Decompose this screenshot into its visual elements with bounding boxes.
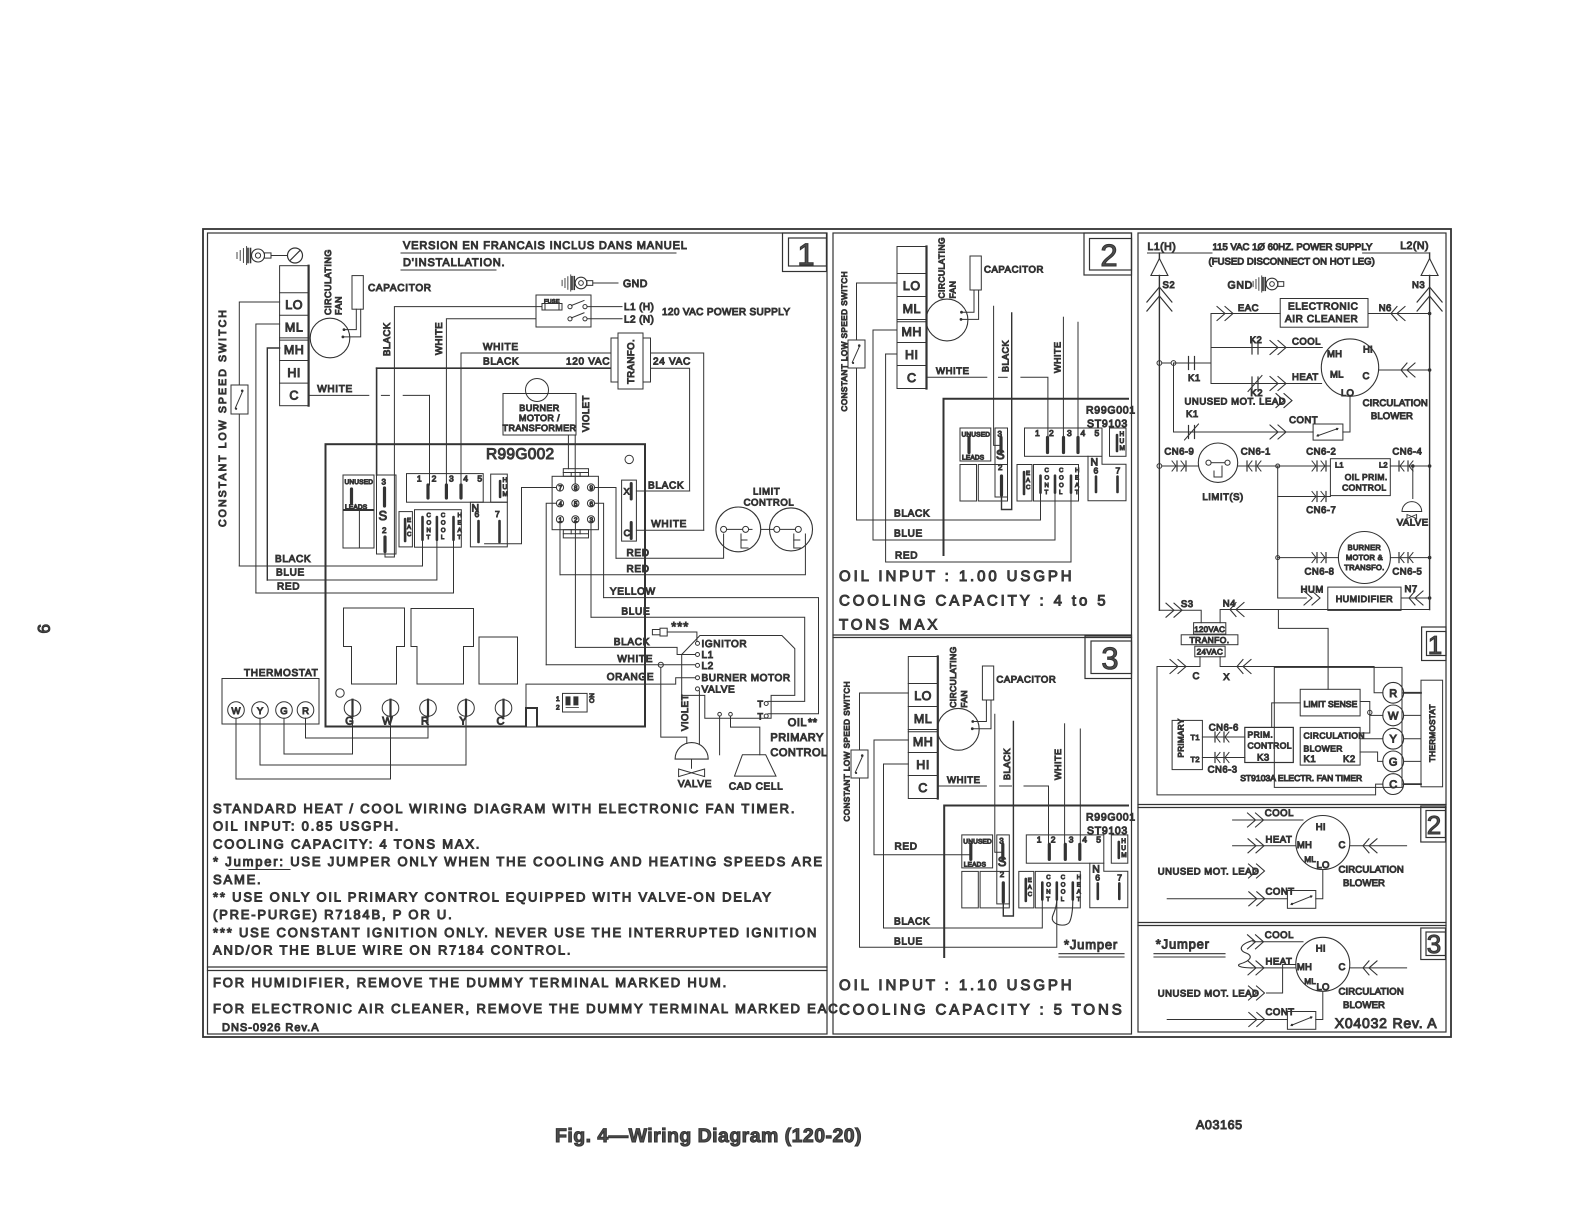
thermostat box (right) (1421, 680, 1443, 787)
svg-text:L: L (1061, 896, 1065, 903)
svg-text:VALVE: VALVE (1397, 518, 1429, 529)
primary box (1172, 720, 1202, 769)
svg-text:SAME.: SAME. (213, 872, 262, 887)
svg-text:L: L (441, 534, 445, 541)
svg-text:ST9103A ELECTR. FAN TIMER: ST9103A ELECTR. FAN TIMER (1240, 773, 1362, 783)
svg-text:S3: S3 (1181, 599, 1194, 610)
terminal column 3 S 2 (997, 835, 1010, 904)
svg-text:N6: N6 (1379, 303, 1392, 314)
svg-text:9: 9 (34, 624, 53, 633)
svg-text:MH: MH (1327, 349, 1342, 360)
svg-text:HI: HI (287, 366, 301, 380)
wire C row (right 3) (1350, 967, 1407, 969)
N 6 7 box (left) (470, 502, 507, 547)
wire pin7 (485, 488, 557, 544)
ST9103A fan timer box (1274, 667, 1402, 787)
svg-text:T: T (1045, 489, 1049, 496)
svg-text:4: 4 (1081, 428, 1086, 438)
svg-text:M: M (503, 491, 508, 498)
svg-text:H: H (1121, 838, 1126, 845)
unused leads box (left) (343, 475, 374, 510)
svg-text:O: O (1045, 474, 1050, 481)
svg-text:U: U (1121, 845, 1126, 852)
wire LO down to cont switch (1343, 396, 1350, 432)
svg-text:FAN: FAN (959, 690, 969, 708)
wire MH down (267, 348, 279, 580)
cad cell (735, 755, 777, 776)
svg-text:6: 6 (1094, 466, 1099, 476)
wire LO to switch (860, 693, 909, 750)
box below unused leads (343, 511, 374, 549)
svg-text:CONTROL: CONTROL (1248, 741, 1292, 751)
svg-text:W: W (232, 706, 241, 717)
mounting hole (625, 455, 633, 463)
svg-text:K3: K3 (1257, 753, 1270, 764)
wire white to pin4 (1079, 729, 1081, 844)
svg-text:2: 2 (382, 526, 387, 535)
svg-text:HUMIDIFIER: HUMIDIFIER (1336, 594, 1394, 604)
eac dummy terminal box (left) (399, 512, 412, 547)
svg-text:T: T (458, 534, 462, 541)
circulation blower motor (right 1) (1321, 339, 1378, 396)
X C terminal box (left) (622, 480, 637, 541)
svg-text:BLUE: BLUE (621, 607, 650, 618)
svg-text:1: 1 (1035, 428, 1040, 438)
svg-text:IGNITOR: IGNITOR (702, 639, 748, 650)
hum dummy terminal box (1110, 428, 1127, 456)
wire black from fan down to S2 bar (1002, 313, 1012, 510)
svg-text:CIRCULATING: CIRCULATING (937, 237, 947, 298)
svg-text:M: M (1120, 445, 1125, 452)
svg-text:VERSION EN FRANCAIS INCLUS DAN: VERSION EN FRANCAIS INCLUS DANS MANUEL (403, 240, 688, 252)
svg-text:3: 3 (1101, 641, 1118, 676)
wire CN6-9 (1157, 464, 1162, 469)
fan terminals and capacitor wires (971, 720, 974, 723)
wire pin6 to yellow (595, 503, 604, 597)
terminal screws G W R Y C (344, 700, 361, 717)
cont switch box (right 2) (1287, 891, 1315, 909)
svg-text:TRANFO.: TRANFO. (1189, 635, 1229, 645)
svg-text:CN6-5: CN6-5 (1392, 567, 1422, 578)
svg-text:M: M (1121, 852, 1126, 859)
svg-text:E: E (1077, 881, 1081, 888)
svg-text:MOTOR /: MOTOR / (519, 413, 560, 423)
svg-text:BLACK: BLACK (1001, 340, 1011, 372)
svg-text:RED: RED (627, 548, 650, 559)
boxes below unused leads (962, 871, 979, 908)
circulation blower K1 K2 box (1300, 727, 1360, 765)
svg-text:CONTROL: CONTROL (744, 498, 795, 509)
svg-text:COOLING CAPACITY : 4 to 5: COOLING CAPACITY : 4 to 5 (839, 593, 1109, 610)
svg-text:T: T (1046, 896, 1050, 903)
svg-text:C: C (441, 512, 446, 519)
svg-text:CIRCULATION: CIRCULATION (1339, 865, 1404, 876)
bottom notch (526, 708, 537, 727)
thermostat box (left) (222, 679, 319, 725)
svg-text:L1: L1 (1335, 461, 1344, 470)
transformer T1 (611, 338, 618, 382)
R99G002 bottom wires from screws (352, 716, 354, 754)
wire CN6-8 (1276, 556, 1280, 560)
svg-text:120 VAC POWER SUPPLY: 120 VAC POWER SUPPLY (662, 307, 790, 318)
svg-text:E: E (1026, 470, 1030, 477)
wire white from fuse L2 down to pin 3 (446, 319, 536, 484)
wire N4 (1220, 610, 1430, 623)
svg-text:*** USE CONSTANT IGNITION ONLY: *** USE CONSTANT IGNITION ONLY. NEVER US… (213, 925, 818, 940)
LIMIT(S) control (1198, 443, 1237, 482)
svg-text:C: C (1059, 467, 1064, 474)
wire pin2 to black (574, 523, 576, 648)
svg-text:CN6-4: CN6-4 (1392, 447, 1422, 458)
transformer (right panel) (1194, 623, 1226, 634)
unused leads box (960, 428, 991, 461)
terminal column 3 S 2 (995, 428, 1008, 497)
svg-text:CN6-8: CN6-8 (1305, 567, 1335, 578)
svg-text:BLOWER: BLOWER (1343, 878, 1385, 889)
svg-text:HEAT: HEAT (1292, 372, 1319, 383)
svg-text:MH: MH (1297, 840, 1312, 851)
wire unused to MH (right 3) (1267, 965, 1296, 994)
svg-text:LIMIT SENSE: LIMIT SENSE (1304, 699, 1358, 709)
CONT switch box (1313, 424, 1343, 440)
svg-text:FOR ELECTRONIC AIR CLEANER, RE: FOR ELECTRONIC AIR CLEANER, REMOVE THE D… (213, 1001, 845, 1016)
wire N7 row (1401, 597, 1430, 599)
svg-text:A: A (1028, 884, 1032, 891)
svg-text:HI: HI (1363, 345, 1373, 356)
svg-text:UNUSED: UNUSED (345, 479, 374, 486)
svg-text:C: C (1028, 891, 1033, 898)
svg-text:U: U (1120, 438, 1125, 445)
cont cool heat box (1034, 465, 1079, 502)
limit control switch 1 (716, 507, 761, 552)
pins 1-5 box (1025, 428, 1103, 456)
wire C row to bus (1379, 369, 1430, 371)
svg-text:CONSTANT LOW SPEED SWITCH: CONSTANT LOW SPEED SWITCH (843, 681, 852, 822)
svg-text:WHITE: WHITE (483, 342, 519, 353)
svg-text:A: A (1026, 477, 1030, 484)
wire white to pin3 (1064, 724, 1066, 845)
wire N4 to limit sense (1278, 610, 1328, 690)
wire L2 (587, 318, 622, 320)
S2 chevrons (1147, 287, 1172, 302)
hum dummy terminal box (1111, 835, 1128, 863)
wire X from 24vac (1220, 657, 1383, 693)
svg-text:Y: Y (1390, 734, 1398, 746)
svg-text:1: 1 (556, 696, 560, 703)
svg-text:E: E (458, 519, 462, 526)
svg-text:C: C (1193, 671, 1200, 682)
svg-text:COOL: COOL (1265, 808, 1294, 819)
svg-text:BLACK: BLACK (894, 509, 930, 520)
svg-text:LO: LO (1341, 388, 1354, 399)
jumper underline in notes (229, 869, 290, 871)
svg-text:** USE ONLY OIL PRIMARY CONTRO: ** USE ONLY OIL PRIMARY CONTROL EQUIPPED… (213, 890, 773, 905)
circulating fan motor (left) (310, 318, 350, 358)
wire 24vac to C terminal (651, 353, 704, 530)
wire HI left (884, 763, 909, 765)
panel marker 1 (left panel) (783, 233, 827, 272)
svg-text:CIRCULATION: CIRCULATION (1339, 987, 1404, 998)
pins 1-5 box (left) (407, 474, 484, 503)
panel marker 1 (right panel) (1422, 627, 1446, 661)
svg-text:3: 3 (1067, 428, 1072, 438)
svg-text:C: C (1026, 484, 1031, 491)
big box R99G001 (section 3) (944, 806, 1128, 958)
svg-text:L2: L2 (702, 661, 714, 672)
svg-text:HEAT: HEAT (1266, 957, 1293, 968)
svg-text:2: 2 (1051, 835, 1056, 845)
svg-text:EAC: EAC (1238, 303, 1259, 314)
svg-text:TONS MAX: TONS MAX (839, 617, 940, 634)
pins 1-5 box (1026, 835, 1104, 863)
svg-text:E: E (1028, 877, 1032, 884)
wire heat row K2 (1211, 383, 1322, 385)
svg-text:MH: MH (913, 735, 933, 749)
N3 chevrons (1417, 287, 1442, 302)
N3 fuse triangle (1429, 253, 1431, 259)
svg-text:THERMOSTAT: THERMOSTAT (1428, 704, 1437, 762)
svg-text:C: C (1339, 840, 1346, 851)
wire LO to cont switch (right 2) (1316, 870, 1323, 899)
svg-text:1: 1 (417, 474, 422, 484)
circulation blower motor (right 3) (1296, 937, 1350, 991)
svg-text:UNUSED MOT. LEAD: UNUSED MOT. LEAD (1158, 867, 1260, 878)
svg-text:K2: K2 (1343, 754, 1356, 765)
low speed switch contact (848, 340, 865, 368)
ground symbol (near fuse) (561, 280, 563, 285)
svg-text:H: H (1075, 467, 1079, 474)
wire white to pin3 (1062, 317, 1064, 437)
wire CN6-4 (1390, 465, 1429, 467)
svg-text:BLACK: BLACK (483, 357, 519, 368)
burner motor transformer box (503, 394, 576, 436)
svg-text:6: 6 (475, 509, 480, 519)
svg-text:COOL: COOL (1292, 337, 1321, 348)
svg-text:2: 2 (1100, 238, 1117, 273)
electronic air cleaner box (1280, 299, 1368, 328)
svg-text:MOTOR &: MOTOR & (1346, 553, 1383, 562)
svg-text:OIL INPUT : 1.10 USGPH: OIL INPUT : 1.10 USGPH (839, 977, 1075, 994)
svg-text:FAN: FAN (334, 296, 344, 315)
wire CN6-5 (1390, 557, 1429, 559)
thermostat terminals W Y G R (228, 702, 245, 719)
svg-text:THERMOSTAT: THERMOSTAT (244, 668, 318, 679)
svg-text:BLOWER: BLOWER (1304, 744, 1343, 754)
svg-text:N4: N4 (1223, 599, 1236, 610)
svg-text:C: C (1389, 779, 1397, 791)
svg-text:K2: K2 (1250, 335, 1263, 346)
svg-text:WHITE: WHITE (947, 775, 981, 786)
svg-text:MH: MH (902, 325, 922, 339)
hum dummy terminal box (left) (491, 474, 508, 502)
svg-text:COOLING CAPACITY : 5 TONS: COOLING CAPACITY : 5 TONS (839, 1002, 1125, 1019)
svg-text:HI: HI (905, 348, 919, 362)
svg-text:Fig. 4—Wiring Diagram (120-20): Fig. 4—Wiring Diagram (120-20) (555, 1125, 862, 1147)
wire limit sense to W (1360, 702, 1370, 734)
panel marker 3 (middle panel) (1085, 636, 1132, 679)
wire heat row (right 2) (1233, 845, 1296, 847)
limit control switch 2 (770, 508, 813, 551)
svg-text:O: O (441, 527, 446, 534)
svg-text:VALVE: VALVE (702, 684, 736, 695)
svg-text:O: O (1061, 889, 1066, 896)
svg-text:RED: RED (627, 564, 650, 575)
wire floating to 3 bar (994, 306, 1001, 445)
svg-text:LIMIT(S): LIMIT(S) (1202, 492, 1243, 503)
svg-text:CONT: CONT (1266, 1007, 1295, 1018)
svg-text:OIL PRIM.: OIL PRIM. (1345, 472, 1388, 482)
svg-text:CN6-1: CN6-1 (1241, 447, 1271, 458)
svg-text:BURNER: BURNER (1348, 543, 1382, 552)
svg-text:T2: T2 (1191, 755, 1200, 764)
svg-text:AND/OR THE BLUE WIRE ON R7184: AND/OR THE BLUE WIRE ON R7184 CONTROL. (213, 943, 572, 958)
capacitor (982, 666, 993, 700)
wire S3 to transformer (1159, 610, 1201, 623)
wires circles to thermostat box (1404, 692, 1421, 694)
svg-text:E: E (1075, 474, 1079, 481)
svg-text:LO: LO (903, 279, 921, 293)
svg-text:U: U (503, 484, 508, 491)
svg-text:WHITE: WHITE (936, 366, 970, 377)
svg-text:UNUSED: UNUSED (963, 838, 992, 845)
svg-text:H: H (503, 477, 508, 484)
wire cool row (right 2) (1233, 819, 1303, 821)
fuse element (542, 304, 562, 311)
svg-text:C: C (427, 512, 432, 519)
svg-text:R99G001: R99G001 (1086, 405, 1136, 417)
right panel border (1138, 233, 1446, 1032)
svg-text:TRANSFO.: TRANSFO. (1344, 563, 1384, 572)
svg-text:5: 5 (477, 474, 482, 484)
svg-text:FAN: FAN (948, 281, 958, 299)
solenoid valve dome (675, 743, 708, 760)
svg-text:*Jumper: *Jumper (1156, 937, 1210, 952)
wire G to circulation box (1360, 752, 1383, 761)
svg-text:120 VAC: 120 VAC (566, 357, 610, 368)
svg-text:STANDARD HEAT / COOL WIRING DI: STANDARD HEAT / COOL WIRING DIAGRAM WITH… (213, 801, 796, 816)
left bus wire (1158, 276, 1160, 611)
left panel notes divider (208, 966, 828, 968)
svg-text:X: X (624, 487, 630, 497)
wire K1 row (1157, 361, 1162, 366)
svg-text:S: S (996, 447, 1005, 462)
svg-text:ML: ML (285, 321, 303, 335)
wires to cad cell (719, 716, 721, 755)
svg-text:24VAC: 24VAC (1197, 648, 1223, 657)
svg-text:3: 3 (1069, 835, 1074, 845)
oil primary control outline (682, 636, 795, 719)
svg-text:X04032 Rev. A: X04032 Rev. A (1335, 1015, 1438, 1031)
thermostat terminals R W Y G C (right) (1383, 682, 1404, 703)
svg-text:C: C (289, 388, 299, 402)
wire CN6-7 (1278, 466, 1331, 497)
svg-text:C: C (407, 531, 412, 538)
svg-text:HI: HI (1316, 822, 1326, 833)
wire ML down (256, 324, 280, 593)
jumper squiggle (1239, 941, 1254, 968)
svg-text:A: A (407, 524, 411, 531)
svg-text:115 VAC 1Ø 60HZ. POWER SUPPLY: 115 VAC 1Ø 60HZ. POWER SUPPLY (1213, 242, 1373, 253)
svg-text:1: 1 (797, 237, 814, 272)
svg-text:CONSTANT LOW SPEED SWITCH: CONSTANT LOW SPEED SWITCH (217, 308, 229, 527)
svg-text:YELLOW: YELLOW (610, 587, 656, 598)
capacitor C1 (left) (352, 276, 363, 310)
svg-text:HUM: HUM (1301, 585, 1324, 596)
circulation blower motor (right 2) (1296, 816, 1350, 870)
svg-text:VIOLET: VIOLET (680, 694, 691, 731)
svg-text:LEADS: LEADS (964, 861, 987, 868)
wire T1 CN6-6 to K3 (1202, 736, 1244, 738)
svg-text:T: T (758, 699, 764, 709)
svg-text:L2 (N): L2 (N) (624, 315, 654, 326)
svg-text:6: 6 (589, 501, 593, 508)
wire EAC row (1211, 314, 1280, 364)
wire valve terminal down (698, 691, 700, 744)
svg-text:X: X (1223, 672, 1230, 683)
svg-text:4: 4 (463, 474, 468, 484)
wire pin3 to blue (590, 523, 592, 617)
wires from burner box to connector (567, 435, 569, 469)
svg-text:FOR HUMIDIFIER, REMOVE THE DUM: FOR HUMIDIFIER, REMOVE THE DUMMY TERMINA… (213, 975, 728, 990)
panel marker 2 (right panel) (1421, 806, 1446, 842)
wire pin4 to white (546, 503, 556, 665)
svg-text:(FUSED DISCONNECT ON HOT LEG): (FUSED DISCONNECT ON HOT LEG) (1209, 257, 1375, 268)
burner motor & transfo circle (right) (1338, 532, 1390, 584)
svg-text:LEADS: LEADS (962, 455, 985, 462)
svg-text:A: A (458, 527, 462, 534)
svg-text:MH: MH (284, 343, 304, 357)
svg-text:**: ** (808, 717, 818, 729)
relay outline 2 (411, 609, 474, 685)
svg-text:AIR CLEANER: AIR CLEANER (1285, 314, 1358, 325)
svg-text:H: H (458, 512, 462, 519)
dip switch (563, 693, 588, 712)
svg-text:120VAC: 120VAC (1194, 625, 1225, 634)
wire MH left (873, 329, 897, 331)
svg-text:3: 3 (1427, 929, 1441, 959)
relay outline 1 (344, 608, 405, 684)
svg-text:PRIMARY: PRIMARY (1177, 718, 1186, 757)
svg-text:O: O (1061, 881, 1066, 888)
wire MH left (874, 739, 908, 741)
svg-text:5: 5 (574, 501, 578, 508)
cont cool heat box (1035, 871, 1080, 908)
svg-text:GND: GND (623, 278, 648, 290)
eac dummy terminal box (1017, 465, 1032, 502)
relay outline 3 (479, 637, 518, 684)
svg-text:L1 (H): L1 (H) (624, 302, 654, 313)
svg-text:VALVE: VALVE (678, 779, 712, 790)
svg-text:ON: ON (589, 693, 596, 703)
svg-text:K1: K1 (1304, 754, 1317, 765)
wire pin9 to red1 (595, 488, 616, 559)
svg-text:T: T (1075, 489, 1079, 496)
svg-text:CONTROL: CONTROL (1342, 483, 1386, 493)
ground symbol (top left) (236, 253, 238, 259)
wire cont row (right 3) (1167, 1019, 1287, 1021)
wire CN6-1 to CN6-2 (1238, 465, 1331, 467)
svg-text:R99G002: R99G002 (486, 446, 554, 463)
svg-text:1: 1 (1037, 835, 1042, 845)
svg-text:C: C (1363, 371, 1370, 382)
svg-text:CN6-6: CN6-6 (1209, 723, 1239, 734)
cont switch box (right 3) (1287, 1012, 1315, 1030)
wire LO to cont switch (right 3) (1316, 991, 1323, 1019)
svg-text:BLUE: BLUE (894, 937, 923, 948)
right panel divider between section 2 and 3 (1138, 922, 1446, 924)
svg-text:ORANGE: ORANGE (607, 672, 655, 683)
svg-text:ML: ML (1304, 977, 1316, 986)
